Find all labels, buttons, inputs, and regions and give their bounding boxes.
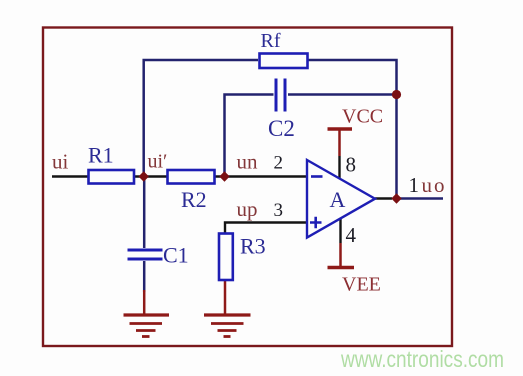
svg-text:www.cntronics.com: www.cntronics.com [340, 346, 504, 372]
wire: VCC stub to pin 8 [338, 130, 341, 179]
wire: pin 4 to VEE stub [339, 219, 341, 267]
wire: C1 ground lead (red) [143, 290, 146, 314]
svg-text:VCC: VCC [342, 106, 383, 128]
svg-text:VEE: VEE [342, 274, 381, 296]
wire: R1 to R2 through node ui' [134, 175, 169, 177]
svg-text:R2: R2 [181, 187, 207, 212]
svg-text:up: up [237, 197, 258, 221]
svg-text:C1: C1 [163, 243, 189, 268]
node un junction dot [219, 171, 229, 181]
svg-text:A: A [330, 187, 346, 212]
resistor R3 [219, 234, 233, 281]
wire: feedback loop (ui' node up, across top through Rf, down right side to output node) [144, 60, 397, 199]
svg-text:ui: ui [52, 150, 69, 174]
svg-text:C2: C2 [268, 116, 295, 141]
capacitor C2 [276, 79, 285, 112]
resistor R1 [89, 170, 135, 184]
ground (below R3) [204, 315, 251, 337]
wire: R3 down to ground (red) [224, 280, 227, 314]
VCC power bar [328, 127, 353, 130]
wire: C1 down to ground [143, 261, 146, 292]
wire: C2 branch (un node up and right to feedback vertical) [225, 95, 397, 177]
VEE power bar [328, 266, 355, 269]
svg-text:R1: R1 [88, 143, 114, 168]
svg-text:ui′: ui′ [148, 151, 168, 173]
node feedback/C2 junction dot [392, 90, 401, 99]
resistor R2 [168, 170, 215, 184]
svg-text:R3: R3 [240, 234, 266, 259]
svg-text:1: 1 [409, 173, 420, 197]
wire: input lead ui to R1 [52, 175, 89, 177]
wire: R2 through node un to op-amp pin 2 [214, 175, 307, 177]
svg-text:3: 3 [274, 200, 284, 221]
svg-text:un: un [237, 150, 259, 174]
wire: op-amp output to node [375, 197, 392, 199]
capacitor C1 [128, 250, 163, 259]
svg-text:4: 4 [346, 223, 357, 247]
node output junction dot [391, 193, 401, 203]
wire: output node to uo [397, 197, 444, 200]
ground (below C1) [124, 315, 170, 337]
wire: ui' node down to C1 [143, 177, 146, 249]
svg-text:uo: uo [422, 173, 447, 197]
svg-text:Rf: Rf [261, 30, 281, 52]
node ui' junction dot [139, 171, 149, 181]
wire: R3 up and right to op-amp pin 3 [225, 223, 307, 234]
svg-text:2: 2 [274, 153, 284, 174]
resistor Rf [260, 54, 308, 69]
op-amp A [307, 160, 375, 238]
svg-text:8: 8 [346, 153, 357, 177]
